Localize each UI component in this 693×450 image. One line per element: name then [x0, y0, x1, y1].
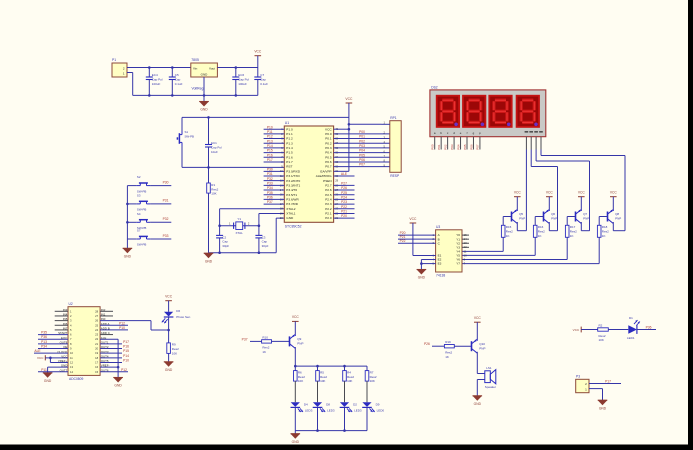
- switch S7 SW-PB: [127, 229, 171, 247]
- svg-text:13: 13: [70, 365, 73, 369]
- wire OUT2 net: [100, 345, 129, 349]
- LED D4: [291, 402, 313, 412]
- junction: [294, 365, 346, 368]
- svg-text:R18: R18: [602, 225, 608, 229]
- transistor Q6 PNP: [544, 210, 558, 231]
- wire ADD C stub: [100, 334, 113, 336]
- svg-text:XTAL: XTAL: [236, 231, 244, 235]
- svg-text:P2.0: P2.0: [325, 216, 332, 220]
- svg-text:VCC: VCC: [573, 328, 580, 332]
- svg-text:Res2: Res2: [347, 375, 354, 379]
- svg-text:R5: R5: [320, 370, 324, 374]
- svg-text:15: 15: [95, 370, 98, 374]
- wire P3.7 net: [264, 200, 285, 204]
- svg-text:P1.1: P1.1: [286, 132, 293, 136]
- svg-text:R16: R16: [538, 225, 544, 229]
- ground GND adc right: [113, 378, 123, 388]
- wire display common 3: [536, 137, 589, 231]
- svg-text:Res2: Res2: [506, 230, 513, 234]
- svg-text:100uF: 100uF: [152, 82, 161, 86]
- wire base Q6: [535, 217, 543, 226]
- wire crystal net: [220, 225, 259, 227]
- wire display common 2: [531, 137, 557, 231]
- svg-text:P3.3/INT1: P3.3/INT1: [286, 183, 300, 187]
- svg-text:Photo Sen: Photo Sen: [176, 315, 190, 319]
- svg-text:1K: 1K: [538, 234, 542, 238]
- svg-text:P37: P37: [242, 337, 248, 341]
- svg-text:EC4: EC4: [152, 73, 158, 77]
- LED D1: [627, 316, 640, 340]
- wire P2.2 net: [334, 205, 355, 209]
- svg-text:P15: P15: [123, 349, 129, 353]
- wire OUT8 net: [38, 340, 68, 344]
- wire VCC pin40: [334, 128, 349, 130]
- wire R19 to Q10: [454, 345, 471, 347]
- svg-text:RP1: RP1: [390, 116, 397, 120]
- power VCC Q8: [610, 191, 618, 210]
- wire P1.1 net: [264, 130, 285, 134]
- svg-text:P06: P06: [469, 144, 473, 150]
- svg-text:R19: R19: [445, 340, 451, 344]
- node P27 LED driver: [242, 337, 262, 341]
- svg-text:18: 18: [95, 356, 98, 360]
- wire 7805 Vout to VCC: [217, 67, 257, 69]
- wire base Q7: [567, 217, 575, 226]
- switch S4 SW-PB: [127, 212, 171, 230]
- svg-text:Y7: Y7: [456, 262, 460, 266]
- wire P1.3 net: [264, 139, 285, 143]
- wire 7805 GND pin: [203, 77, 205, 95]
- wire OUT5 net: [100, 358, 129, 362]
- svg-text:U1: U1: [285, 121, 289, 125]
- svg-text:E3: E3: [438, 262, 442, 266]
- svg-text:Cap Pol: Cap Pol: [238, 78, 249, 82]
- svg-text:S3: S3: [137, 194, 141, 198]
- svg-text:10: 10: [70, 351, 73, 355]
- wire P2.4 net: [334, 196, 355, 200]
- svg-text:C7: C7: [260, 73, 264, 77]
- wire D4 to bus: [294, 407, 296, 430]
- svg-text:LED3: LED3: [327, 409, 335, 413]
- svg-text:P1.5: P1.5: [286, 151, 293, 155]
- svg-text:GND: GND: [286, 216, 294, 220]
- svg-text:P3.7/RD: P3.7/RD: [286, 202, 298, 206]
- wire IN3-IN7 stubs: [55, 311, 68, 330]
- svg-text:VCC: VCC: [254, 50, 262, 54]
- svg-text:P3.5/T1: P3.5/T1: [286, 193, 297, 197]
- svg-text:P02: P02: [443, 144, 447, 150]
- switch S3 SW-PB: [127, 194, 171, 212]
- svg-text:P3.1/TXD: P3.1/TXD: [286, 174, 300, 178]
- svg-text:VCC: VCC: [474, 316, 482, 320]
- svg-text:7805: 7805: [191, 58, 199, 62]
- svg-text:P36: P36: [646, 325, 652, 329]
- svg-text:26: 26: [95, 319, 98, 323]
- svg-text:VCC: VCC: [409, 217, 417, 221]
- wire display common 4: [541, 137, 625, 231]
- svg-text:1K: 1K: [506, 234, 510, 238]
- svg-text:Speaker: Speaker: [485, 385, 496, 389]
- svg-text:P0.6: P0.6: [325, 160, 332, 164]
- LED D9: [362, 402, 384, 412]
- svg-text:P31: P31: [163, 199, 169, 203]
- svg-text:D2: D2: [353, 402, 357, 406]
- svg-text:10K: 10K: [211, 192, 216, 196]
- wire P1.7 net: [264, 158, 285, 162]
- svg-text:P24: P24: [341, 196, 347, 200]
- svg-text:PNP: PNP: [551, 217, 557, 221]
- svg-text:P04: P04: [359, 149, 365, 153]
- wire IN2 IN1 stubs: [100, 311, 113, 316]
- power VCC Q10: [474, 316, 482, 340]
- svg-text:PNP: PNP: [479, 346, 485, 350]
- ground GND photo: [164, 362, 174, 372]
- wire E2 E3 to GND: [420, 260, 436, 270]
- wire 74138 B input: [398, 235, 436, 239]
- wire P1.4 net: [264, 144, 285, 148]
- svg-text:P0.4: P0.4: [325, 151, 332, 155]
- ground GND 74138: [417, 270, 427, 280]
- svg-text:P05: P05: [359, 153, 365, 157]
- junction: [49, 357, 52, 360]
- wire P3.2 net: [264, 177, 285, 181]
- wire P0.4 net: [334, 149, 390, 153]
- wire R6 to D4: [294, 381, 296, 402]
- LED D8: [313, 402, 335, 412]
- svg-text:PNP: PNP: [297, 342, 303, 346]
- wire CLOCK ALE net: [34, 349, 68, 353]
- svg-text:GND: GND: [44, 379, 52, 383]
- svg-text:P2.2: P2.2: [325, 207, 332, 211]
- resistor R1: [207, 167, 219, 195]
- svg-text:R10: R10: [262, 335, 268, 339]
- resistor R17: [565, 225, 577, 238]
- wire P2.1 net: [334, 210, 355, 214]
- svg-text:P0.2: P0.2: [325, 141, 332, 145]
- adc U2 ADC0809: [57, 302, 109, 381]
- svg-text:U2: U2: [69, 302, 73, 306]
- svg-text:P26: P26: [424, 342, 430, 346]
- svg-text:10: 10: [464, 253, 467, 257]
- svg-text:VCC: VCC: [292, 315, 300, 319]
- svg-text:D1: D1: [629, 316, 633, 320]
- svg-text:P17: P17: [267, 158, 273, 162]
- svg-text:R6: R6: [298, 370, 302, 374]
- wire Q10 to speaker: [477, 373, 485, 375]
- svg-text:P03: P03: [450, 144, 454, 150]
- svg-text:GND: GND: [124, 255, 132, 259]
- svg-text:P35: P35: [267, 191, 273, 195]
- svg-text:GND: GND: [292, 440, 300, 444]
- svg-text:P13: P13: [267, 139, 273, 143]
- svg-text:PNP: PNP: [615, 217, 621, 221]
- svg-text:Cap: Cap: [175, 78, 181, 82]
- svg-text:LED1: LED1: [627, 336, 635, 340]
- svg-text:P10: P10: [119, 326, 125, 330]
- junction: [148, 66, 174, 69]
- wire P0.0 net: [334, 130, 390, 134]
- svg-text:R7: R7: [370, 370, 374, 374]
- wire MCU GND pin: [276, 218, 284, 253]
- svg-text:P00: P00: [359, 130, 365, 134]
- wire P0.3 net: [334, 144, 390, 148]
- wire OUT1 net: [100, 340, 129, 344]
- wire P1.5 net: [264, 149, 285, 153]
- wire P2.5 net: [334, 191, 355, 195]
- power VCC supply: [254, 50, 262, 68]
- svg-text:24: 24: [95, 328, 98, 332]
- svg-text:11: 11: [464, 249, 467, 253]
- svg-text:P20: P20: [341, 214, 347, 218]
- wire P0.5 net: [334, 153, 390, 157]
- svg-text:C3: C3: [262, 235, 266, 239]
- wire XTAL2: [220, 209, 285, 226]
- svg-text:19: 19: [95, 351, 98, 355]
- wire P0.6 net: [334, 158, 390, 162]
- svg-text:P34: P34: [41, 345, 47, 349]
- ground GND adc left: [43, 373, 53, 383]
- svg-text:RST: RST: [286, 165, 292, 169]
- wire OE net: [38, 345, 68, 349]
- resistor R2: [598, 323, 609, 342]
- ground GND speaker: [473, 396, 483, 406]
- svg-text:GND: GND: [200, 108, 208, 112]
- svg-text:PNP: PNP: [519, 217, 525, 221]
- wire R16 to Y5: [462, 237, 535, 255]
- power VCC D1: [573, 327, 598, 333]
- connector P3: [576, 375, 589, 393]
- resistor pack RP1: [381, 116, 401, 178]
- ground GND power: [199, 102, 209, 112]
- svg-text:Q5: Q5: [519, 212, 523, 216]
- svg-text:P30: P30: [267, 167, 273, 171]
- svg-text:P32: P32: [267, 177, 273, 181]
- svg-text:GND: GND: [165, 368, 173, 372]
- wire P1 pin1 down to ground rail: [127, 73, 133, 96]
- svg-text:P1.7: P1.7: [286, 160, 293, 164]
- svg-text:R1: R1: [211, 183, 215, 187]
- capacitor C3: [255, 226, 268, 253]
- svg-text:P27: P27: [341, 181, 347, 185]
- wire P3 pin2 net: [589, 379, 621, 383]
- capacitor EC4: [146, 68, 163, 96]
- svg-text:1K: 1K: [262, 350, 266, 354]
- svg-text:P10: P10: [267, 125, 273, 129]
- wire D2 to bus: [344, 407, 346, 430]
- wire P2.6 net: [334, 186, 355, 190]
- svg-text:ALE: ALE: [341, 172, 348, 176]
- svg-text:P2.7: P2.7: [325, 183, 332, 187]
- svg-text:20: 20: [95, 347, 98, 351]
- svg-text:R4: R4: [347, 370, 351, 374]
- svg-text:P11: P11: [267, 130, 273, 134]
- transistor Q7 PNP: [576, 210, 590, 231]
- svg-text:VCC: VCC: [610, 191, 618, 195]
- svg-text:Res2: Res2: [320, 375, 327, 379]
- svg-text:VCC: VCC: [325, 127, 332, 131]
- svg-text:VCC: VCC: [165, 295, 173, 299]
- wire 74138 Y0-Y3 stubs: [462, 235, 469, 247]
- svg-text:25: 25: [95, 323, 98, 327]
- svg-text:ALE/PROG: ALE/PROG: [316, 174, 332, 178]
- svg-text:D4: D4: [304, 402, 308, 406]
- svg-text:100uF: 100uF: [238, 82, 247, 86]
- svg-text:P30: P30: [163, 180, 169, 184]
- svg-text:P12: P12: [267, 135, 273, 139]
- wire ground rail: [133, 94, 258, 96]
- svg-text:R9: R9: [172, 343, 176, 347]
- svg-text:EA/VPP: EA/VPP: [320, 169, 331, 173]
- svg-text:P1.6: P1.6: [286, 155, 293, 159]
- power VCC Q6: [546, 191, 554, 210]
- wire ALE net: [334, 172, 355, 176]
- svg-text:VoltReg: VoltReg: [192, 87, 204, 91]
- resistor R15: [501, 225, 513, 238]
- svg-text:P03: P03: [359, 144, 365, 148]
- wire P2.7 net: [334, 181, 355, 185]
- wire P3.3 net: [264, 181, 285, 185]
- svg-text:Q10: Q10: [479, 342, 485, 346]
- wire crystal GND rail: [209, 252, 277, 254]
- svg-text:P3.0/RXD: P3.0/RXD: [286, 169, 301, 173]
- svg-text:P0.3: P0.3: [325, 146, 332, 150]
- svg-text:EC6: EC6: [238, 73, 244, 77]
- junction: [316, 429, 346, 432]
- svg-text:21: 21: [95, 342, 98, 346]
- svg-text:P33: P33: [163, 234, 169, 238]
- wire P1.0 net: [264, 125, 285, 129]
- svg-text:23: 23: [95, 333, 98, 337]
- svg-text:P17: P17: [605, 379, 611, 383]
- svg-text:P07: P07: [476, 144, 480, 150]
- wire P2.0 net: [334, 214, 355, 218]
- svg-text:1K: 1K: [570, 234, 574, 238]
- svg-text:P2.4: P2.4: [325, 198, 332, 202]
- svg-text:Res2: Res2: [298, 375, 305, 379]
- svg-text:P07: P07: [359, 163, 365, 167]
- wire XTAL1: [259, 213, 284, 225]
- resistor R18: [597, 225, 609, 238]
- photodiode D6: [162, 309, 191, 323]
- power VCC Q9: [292, 315, 300, 335]
- wire P1.6 net: [264, 153, 285, 157]
- wire R2 to D1: [608, 329, 628, 331]
- svg-text:Q7: Q7: [583, 212, 587, 216]
- power VCC Q5: [514, 191, 522, 210]
- power VCC Q7: [578, 191, 586, 210]
- svg-text:R2: R2: [599, 323, 603, 327]
- svg-text:LED0: LED0: [377, 409, 385, 413]
- wire D8 to bus: [317, 407, 319, 430]
- svg-text:P0.0: P0.0: [325, 132, 332, 136]
- svg-text:20: 20: [280, 216, 283, 220]
- svg-text:P3.4/T0: P3.4/T0: [286, 188, 297, 192]
- svg-text:1K: 1K: [602, 234, 606, 238]
- svg-text:P3.2/INT0: P3.2/INT0: [286, 179, 300, 183]
- svg-text:P0.1: P0.1: [325, 137, 332, 141]
- wire P3.6 net: [264, 196, 285, 200]
- svg-text:Res2: Res2: [370, 375, 377, 379]
- wire VREF- net: [100, 366, 119, 369]
- svg-text:10K: 10K: [172, 352, 177, 356]
- svg-text:GND: GND: [114, 384, 122, 388]
- svg-text:ADC0809: ADC0809: [69, 377, 83, 381]
- power VCC mcu: [345, 97, 353, 118]
- svg-text:P13: P13: [41, 340, 47, 344]
- svg-text:P06: P06: [359, 158, 365, 162]
- svg-text:LED3: LED3: [354, 409, 362, 413]
- svg-text:Q9: Q9: [297, 337, 301, 341]
- svg-text:STC89C52: STC89C52: [285, 225, 302, 229]
- svg-text:RESP: RESP: [390, 174, 400, 178]
- svg-text:Res2: Res2: [538, 230, 545, 234]
- wire R7 to D9: [366, 381, 368, 402]
- svg-text:P10: P10: [123, 358, 129, 362]
- svg-text:P14: P14: [267, 144, 273, 148]
- wire R17 to Y6: [462, 237, 567, 259]
- svg-text:R17: R17: [570, 225, 576, 229]
- svg-text:EC1: EC1: [211, 141, 217, 145]
- svg-text:P21: P21: [341, 210, 347, 214]
- svg-text:P3: P3: [576, 375, 580, 379]
- capacitor EC6: [232, 68, 249, 96]
- svg-text:P01: P01: [359, 135, 365, 139]
- wire IN0 to photosensor: [100, 321, 169, 330]
- svg-text:P0.7: P0.7: [325, 165, 332, 169]
- svg-text:SW-PB: SW-PB: [185, 135, 194, 139]
- svg-text:P22: P22: [341, 205, 347, 209]
- junction: [218, 251, 260, 254]
- svg-text:VCC: VCC: [345, 97, 353, 101]
- svg-text:Q6: Q6: [551, 212, 555, 216]
- wire ALE adc to GND: [100, 339, 118, 377]
- power VCC photo: [165, 295, 173, 312]
- svg-text:P12: P12: [119, 321, 125, 325]
- op-amp U1 MCU STC89C52: [280, 121, 339, 229]
- resistor R7: [365, 366, 377, 383]
- junction: [218, 224, 260, 227]
- svg-text:GND: GND: [474, 402, 482, 406]
- svg-text:VCC: VCC: [546, 191, 554, 195]
- wire LED bus bottom: [295, 430, 367, 432]
- svg-text:P04: P04: [456, 144, 460, 150]
- wire OUT7 net: [38, 368, 68, 372]
- svg-text:10K: 10K: [599, 338, 604, 342]
- svg-text:P33: P33: [267, 181, 273, 185]
- decoder U3 74138: [433, 225, 468, 278]
- junction: [207, 116, 210, 119]
- transistor Q9 PNP: [290, 334, 304, 366]
- wire ADD B net: [100, 326, 128, 330]
- wire RST net: [182, 166, 284, 168]
- wire P3.5 net: [264, 191, 285, 195]
- svg-text:12: 12: [70, 360, 73, 364]
- svg-text:P31: P31: [267, 172, 273, 176]
- wire P3.1 net: [264, 172, 285, 176]
- svg-text:1K: 1K: [445, 355, 449, 359]
- svg-text:P23: P23: [341, 200, 347, 204]
- wire R18 to Y7: [462, 237, 599, 263]
- wire base Q8: [599, 217, 607, 226]
- svg-text:10uF: 10uF: [211, 150, 218, 154]
- svg-text:VCC: VCC: [578, 191, 586, 195]
- junction: [126, 203, 129, 224]
- wire R5 to D8: [317, 381, 319, 402]
- wire P0.2 net: [334, 139, 390, 143]
- svg-text:P1: P1: [112, 58, 116, 62]
- resistor R5: [316, 366, 328, 383]
- wire OUT6 net: [100, 368, 128, 372]
